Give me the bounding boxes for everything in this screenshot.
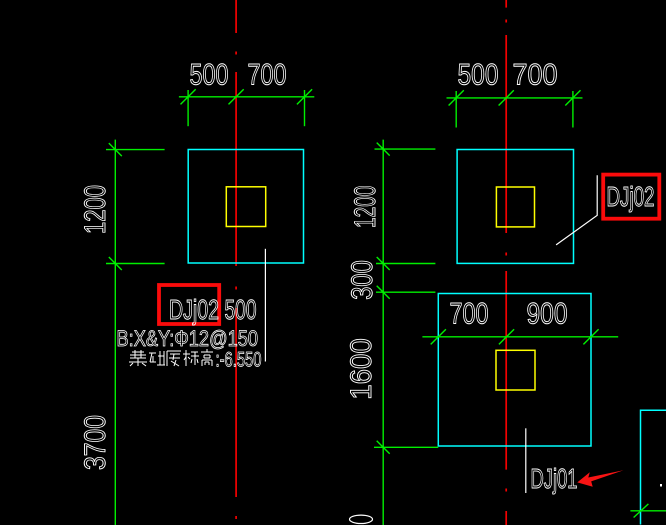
char 高 — [201, 349, 213, 366]
markup red box around DJj02 (right) — [603, 175, 659, 219]
svg-text::-6.550: :-6.550 — [216, 349, 262, 372]
leader line to DJj01 label — [525, 428, 527, 493]
dimension texts — [79, 59, 568, 524]
char 标 — [183, 350, 199, 366]
column section left (yellow square) — [226, 187, 265, 227]
svg-text:1200: 1200 — [349, 185, 382, 228]
svg-text:1600: 1600 — [345, 338, 378, 400]
column section right (yellow square) — [496, 187, 534, 227]
svg-text:B:X&Y:Φ12@150: B:X&Y:Φ12@150 — [117, 326, 259, 351]
footing outline DJj01 (cyan rect) — [438, 294, 591, 447]
CJK text 基础底标高 (hand-drawn strokes) — [129, 349, 213, 366]
svg-text:900: 900 — [527, 298, 568, 331]
svg-text:700: 700 — [513, 59, 558, 92]
dimension: DJj01 700/900 — [422, 329, 618, 344]
dimension: top-right 500/700 — [447, 90, 583, 127]
centerline B (right column axis), red dash-dot — [505, 0, 507, 525]
char 底 — [167, 351, 181, 366]
footing outline DJj02 left (cyan rect) — [188, 150, 303, 264]
dimension tick bottom-right footing — [630, 504, 666, 518]
stray white speck right edge — [660, 484, 662, 487]
centerline A (left column axis), red dash-dot — [235, 0, 237, 519]
dimension chain: right vertical 1200/300/1600 — [374, 140, 438, 525]
svg-text:3700: 3700 — [79, 415, 112, 470]
svg-text:700: 700 — [248, 59, 287, 92]
char 础 — [149, 351, 165, 365]
footing outline partial (bottom-right cyan rect) — [641, 410, 666, 524]
svg-text:300: 300 — [346, 260, 379, 300]
dimension chain: left vertical 1200/3700 — [106, 140, 165, 525]
svg-text:700: 700 — [450, 298, 489, 331]
column section DJj01 (yellow square) — [496, 350, 535, 390]
markup red box around DJj02 (left) — [159, 285, 219, 324]
svg-text:500: 500 — [458, 59, 499, 92]
svg-text:1200: 1200 — [79, 185, 112, 234]
leader line to DJj02 label (right) — [556, 175, 597, 245]
svg-text:500: 500 — [190, 59, 229, 92]
partial rotated digit 0 (bottom of right chain) — [350, 515, 373, 523]
svg-text:500: 500 — [225, 294, 257, 325]
footing outline DJj02 right (cyan rect) — [457, 150, 573, 264]
svg-text:DJj02: DJj02 — [607, 181, 655, 212]
svg-text:DJj01: DJj01 — [531, 463, 578, 494]
svg-text:DJj02: DJj02 — [169, 294, 219, 325]
dimension: top-left 500/700 — [179, 89, 314, 126]
label texts — [117, 181, 655, 494]
leader line to DJj02 text (left) — [264, 249, 266, 362]
markup red arrow to DJj01 — [577, 470, 623, 487]
char 基 — [129, 350, 147, 366]
